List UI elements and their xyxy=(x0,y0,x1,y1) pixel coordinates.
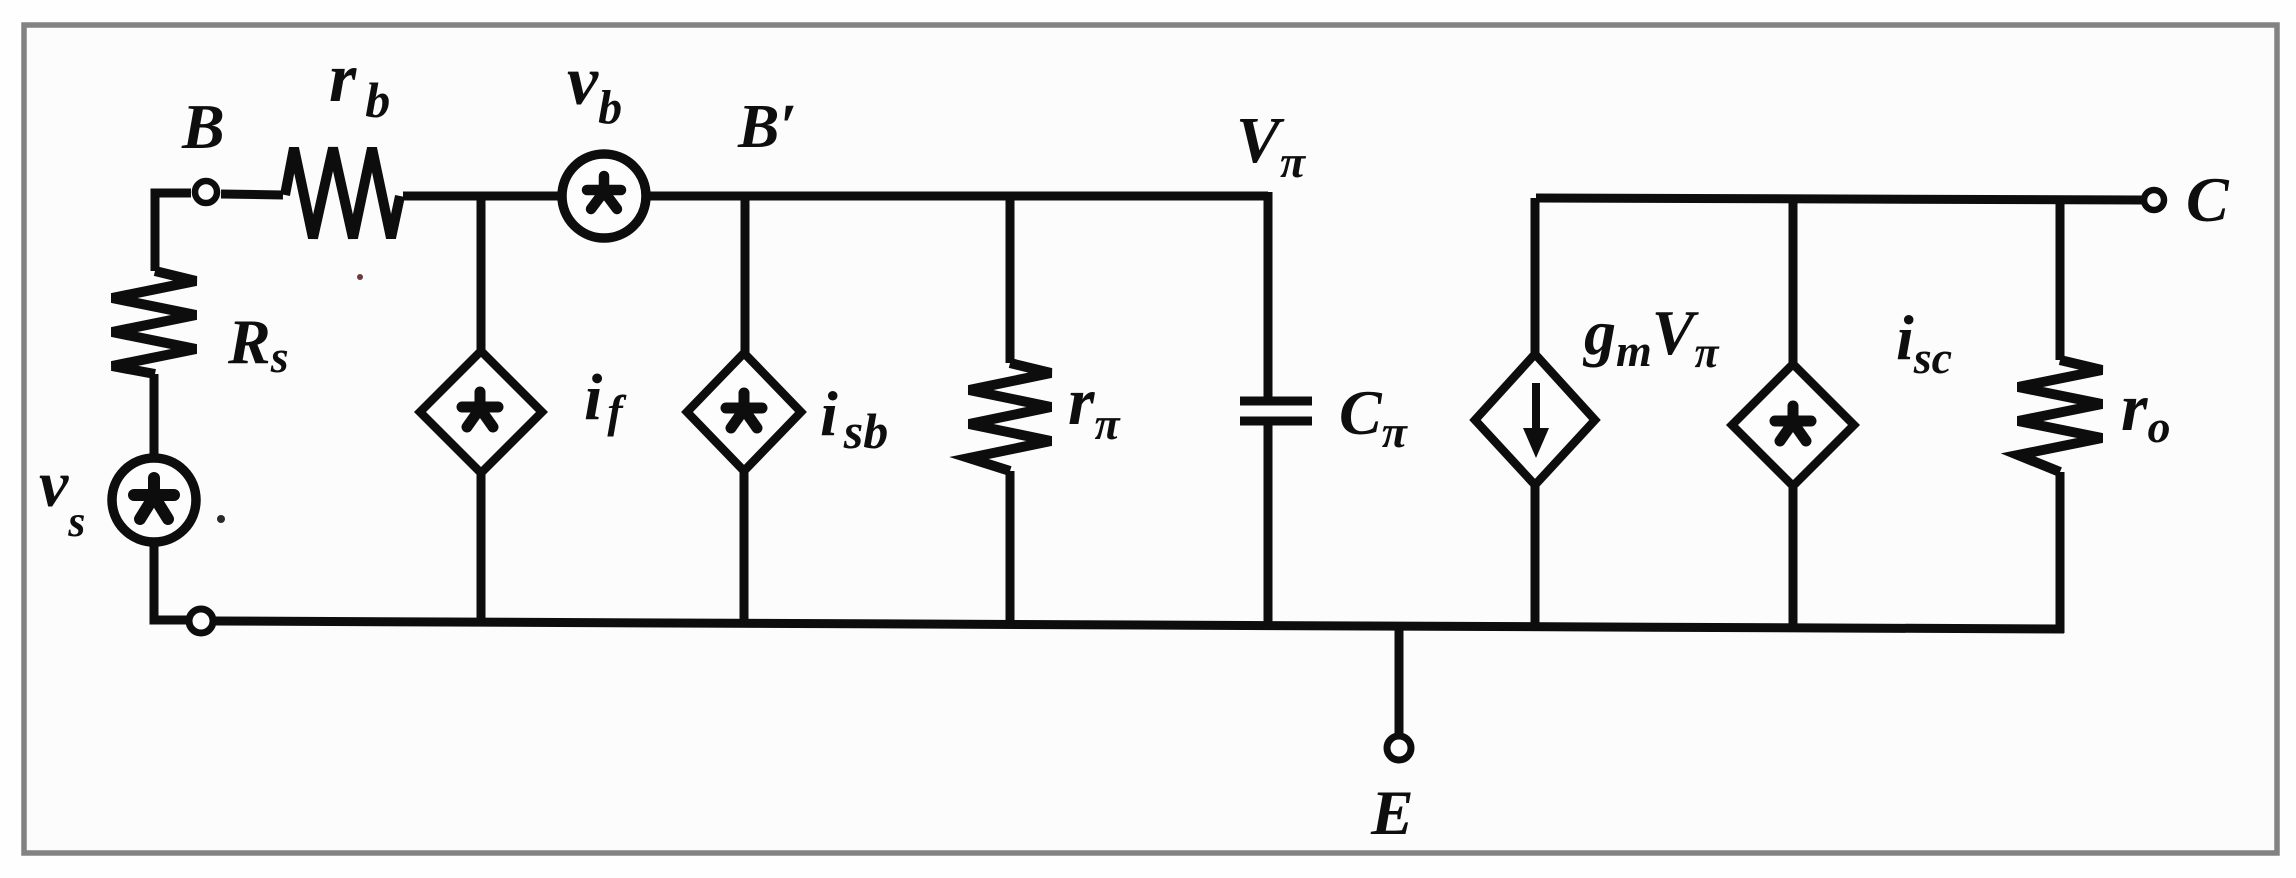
current source isc diamond xyxy=(1732,364,1854,486)
voltage source vb circle xyxy=(562,154,646,238)
svg-text:C: C xyxy=(2186,164,2230,235)
wire node B to resistor rb xyxy=(221,194,283,195)
resistor rb xyxy=(285,148,400,238)
asterisk in vb xyxy=(587,176,621,209)
terminal C xyxy=(2144,190,2164,210)
terminal B xyxy=(195,181,217,203)
speck near rb xyxy=(357,274,363,280)
capacitor Cpi plates xyxy=(1240,401,1312,421)
wire branch isb top xyxy=(741,196,750,357)
wire branch isc bottom xyxy=(1789,482,1798,627)
wire branch gm top xyxy=(1531,198,1540,358)
wire vs to bottom-left corner xyxy=(154,544,188,620)
arrow in gmVpi xyxy=(1523,383,1549,458)
wire branch rpi bottom xyxy=(1006,471,1015,623)
wire branch Cpi top xyxy=(1264,192,1273,397)
wire branch isc top xyxy=(1789,199,1798,368)
wire branch if bottom xyxy=(477,469,486,621)
resistor rpi zigzag xyxy=(969,363,1051,471)
right top rail xyxy=(1536,198,2142,200)
wire branch rpi top xyxy=(1006,196,1015,363)
current source if diamond xyxy=(420,351,542,473)
wire branch isb bottom xyxy=(740,467,749,622)
svg-text:B′: B′ xyxy=(737,93,797,161)
controlled source gmVpi diamond xyxy=(1475,354,1595,485)
wire E stub xyxy=(1395,626,1404,734)
wire rb to vb source xyxy=(403,192,560,201)
terminal E xyxy=(1387,736,1411,760)
asterisk in if xyxy=(462,392,498,427)
wire branch ro bottom xyxy=(2056,472,2065,633)
wire branch if top xyxy=(477,196,486,355)
wire branch gm bottom xyxy=(1531,481,1540,626)
svg-text:E: E xyxy=(1370,777,1414,848)
wire vb to Vpi corner xyxy=(648,192,1268,201)
voltage source vs circle xyxy=(112,458,196,542)
wire branch ro top xyxy=(2056,200,2065,360)
wire branch Cpi bottom xyxy=(1264,424,1273,624)
resistor ro xyxy=(2018,360,2102,472)
resistor Rs xyxy=(112,271,196,374)
wire top-left corner to node B xyxy=(155,193,191,271)
wire Rs to vs source xyxy=(150,374,159,456)
terminal bottom-left xyxy=(189,609,213,633)
current source isb diamond xyxy=(687,353,801,471)
bottom rail xyxy=(215,621,2064,629)
asterisk in isc xyxy=(1775,406,1811,441)
asterisk in vs xyxy=(134,478,174,519)
speck near vs xyxy=(217,515,225,523)
svg-text:B: B xyxy=(181,91,225,162)
asterisk in isb xyxy=(726,393,762,428)
